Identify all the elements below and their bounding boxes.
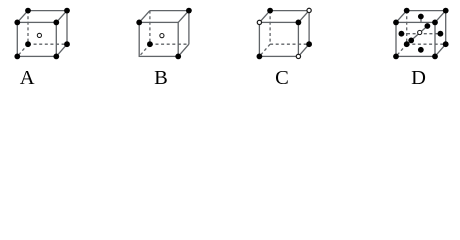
cube A wireframe: hidden dashed edges [17,11,67,57]
cube A wireframe: back face visible edges [28,11,67,45]
cube B wireframe: back face visible edges [150,11,189,45]
cube D wireframe: connecting diagonals [396,11,446,57]
svg-text:D: D [411,67,426,89]
cube D mid dashed axis left-face to right-face [401,33,440,35]
cube C wireframe: hidden dashed edges [259,11,309,57]
cube C wireframe: front face [259,22,298,56]
cube D wireframe: hidden dashed edges [396,11,446,57]
cube D wireframe: back face visible edges [407,11,446,45]
cube D stub under top-face atom [420,18,422,22]
cube D corner atoms (8 filled) [393,20,399,26]
cube C filled corner atoms (4) [267,8,273,14]
cube C wireframe: back face visible edges [270,11,309,45]
cube B wireframe: front face [139,22,178,56]
cube C open corner atoms (3) [257,20,261,24]
cube A wireframe: front face [17,22,56,56]
cube D face-center atoms (6 filled) [418,14,424,20]
svg-text:C: C [275,67,289,89]
cube B wireframe: hidden dashed edges [139,11,189,57]
cube B alternate corner atoms (4 filled) [136,20,142,26]
cube D connector front-face dot to back-face dot through center [411,26,427,40]
svg-text:B: B [154,67,168,89]
cube B body-center open atom [160,34,164,38]
cube D wireframe: front face [396,22,435,56]
cube B wireframe: connecting diagonals [139,11,189,57]
cube C wireframe: connecting diagonals [259,11,309,57]
cube D body-center open atom [418,30,422,34]
cube A corner atoms (8 filled) [14,20,20,26]
cube A wireframe: connecting diagonals [17,11,67,57]
svg-text:A: A [20,67,35,89]
cube A body-center open atom [37,33,41,37]
